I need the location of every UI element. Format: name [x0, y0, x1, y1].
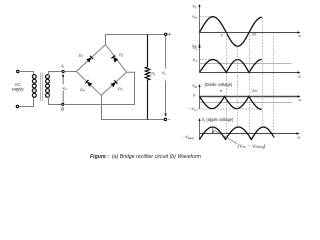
svg-text:(Diode voltage): (Diode voltage) [205, 82, 233, 87]
resistor RL [145, 35, 150, 120]
transformer primary coil [32, 75, 36, 79]
bridge edge L-B [76, 72, 101, 96]
svg-text:−V0avg: −V0avg [183, 135, 194, 140]
wire node A to bridge [64, 71, 76, 73]
svg-text:2π: 2π [251, 33, 257, 37]
waveform3 y-axis [199, 87, 201, 110]
waveform4 x-axis [200, 133, 297, 135]
svg-text:ω: ω [298, 98, 301, 102]
vin voltage arrow [62, 90, 64, 102]
node A terminal [62, 70, 64, 72]
svg-text:2π: 2π [251, 89, 257, 93]
ripple peak arrow [212, 128, 214, 132]
svg-text:vin: vin [62, 85, 67, 91]
svg-text:−: − [168, 117, 171, 123]
svg-text:Vm: Vm [192, 14, 198, 20]
bridge edge T-R [106, 45, 127, 73]
svg-text:+: + [168, 32, 171, 38]
svg-text:D1: D1 [79, 52, 84, 58]
svg-text:π: π [220, 89, 223, 93]
diode D1 [86, 57, 91, 62]
wire secondary bottom to node B [49, 97, 62, 105]
svg-text:A: A [60, 64, 64, 69]
svg-text:RL: RL [151, 71, 156, 77]
node B terminal [62, 103, 64, 105]
svg-text:Vo: Vo [162, 70, 167, 76]
diode D2 [113, 57, 118, 63]
AC source terminal (bottom) [16, 105, 18, 107]
waveform2 rectified curve Vo [200, 60, 262, 73]
bridge edge B-R [101, 72, 126, 95]
svg-text:B: B [61, 107, 64, 112]
diode D4 [87, 82, 92, 87]
svg-text:−Vm: −Vm [189, 106, 197, 112]
svg-text:Vr (ripple voltage): Vr (ripple voltage) [202, 117, 235, 123]
guide dashed line right [273, 33, 275, 138]
wire bridge bottom to output rail [102, 95, 165, 119]
wire node B to bridge [64, 72, 135, 104]
wire top-left terminal to primary [19, 72, 34, 76]
svg-text:(Vm − V0avg): (Vm − V0avg) [238, 143, 266, 149]
ripple annotation leader [214, 130, 237, 144]
-Vm dashed level (wf3) [198, 108, 262, 110]
svg-text:D3: D3 [118, 86, 123, 92]
waveform1 sine curve Vs [200, 17, 262, 47]
waveform3 x-axis [200, 96, 298, 98]
svg-text:0: 0 [193, 93, 196, 98]
waveform1 y-axis [199, 7, 201, 46]
guide dashed line at 5pi/2 [262, 18, 264, 127]
svg-text:D4: D4 [80, 87, 85, 93]
output terminal - (bottom) [164, 118, 166, 120]
bridge edge L-T [76, 45, 105, 72]
Voavg level line (wf2) [200, 63, 292, 65]
transformer core [40, 73, 42, 102]
waveform2 y-axis [199, 48, 201, 73]
diode D3 [110, 82, 115, 87]
waveform2 x-axis [200, 72, 298, 74]
transformer secondary coil [46, 75, 50, 79]
svg-text:ω: ω [298, 74, 301, 78]
Vm dashed level (wf1) [200, 16, 214, 18]
guide dashed line at 3pi/2 [237, 46, 239, 127]
svg-text:Figure : (a) Bridge rectifier: Figure : (a) Bridge rectifier circuit (b… [90, 154, 202, 160]
waveform4 y-axis [199, 121, 201, 140]
Vm dashed level (wf2) [200, 59, 212, 61]
svg-text:π: π [220, 34, 223, 38]
waveform3 diode voltage curve [200, 97, 262, 110]
svg-text:D2: D2 [119, 52, 124, 58]
avg level line (wf3) [200, 102, 293, 104]
svg-text:Vs: Vs [192, 3, 197, 9]
AC source terminal (top) [17, 70, 19, 72]
wire secondary top to node A [49, 72, 63, 76]
svg-text:ω: ω [297, 136, 300, 140]
svg-text:VD: VD [192, 83, 197, 89]
wire bottom-left terminal to primary [19, 97, 34, 107]
wire bridge top to output rail [106, 35, 165, 45]
waveform1 x-axis [200, 32, 298, 34]
waveform4 ripple curve [200, 127, 275, 139]
svg-text:ω: ω [298, 34, 301, 38]
guide dashed line at 2pi [249, 33, 251, 140]
svg-text:supply: supply [12, 87, 25, 92]
svg-text:Vm: Vm [192, 57, 198, 63]
guide dashed line at pi [226, 33, 228, 140]
Vo voltage arrow [165, 36, 167, 69]
output terminal + (top) [165, 33, 167, 35]
